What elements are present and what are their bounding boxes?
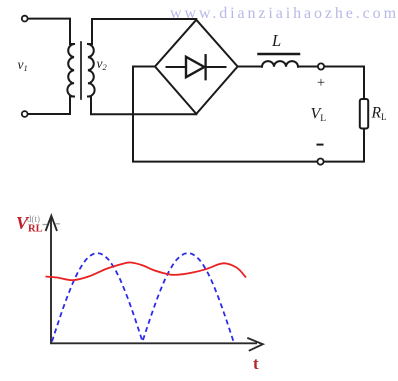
label minus	[317, 144, 324, 146]
wire: + terminal to load top	[324, 67, 364, 100]
red filtered output waveform	[46, 262, 247, 280]
diode triangle	[186, 57, 204, 77]
input terminal top-left	[22, 16, 28, 22]
inductor L winding	[262, 61, 298, 67]
bridge rectifier D	[155, 20, 238, 114]
input terminal bottom-left	[22, 111, 28, 117]
graph x-axis	[50, 342, 257, 344]
blue dashed rectified sine waveform	[52, 253, 234, 342]
svg-text:www.dianziaihaozhe.com: www.dianziaihaozhe.com	[170, 5, 398, 22]
svg-text:v1: v1	[18, 57, 28, 73]
transformer T1 core	[80, 42, 82, 99]
svg-text:L: L	[271, 31, 281, 50]
svg-text:d(t): d(t)	[27, 214, 40, 224]
wire: inductor to + output terminal	[298, 66, 318, 68]
svg-text:v2: v2	[97, 56, 108, 72]
wire: top-left terminal to primary top	[28, 19, 70, 44]
wire: bottom-left terminal to primary bottom	[28, 97, 70, 115]
wire: secondary top to bridge top corner	[92, 19, 196, 44]
transformer T1 secondary winding	[88, 44, 95, 97]
inductor L core bar	[259, 53, 300, 56]
diode cathode lead	[206, 66, 226, 68]
output terminal -	[317, 159, 323, 165]
wire: bottom rail from - terminal to bridge left corner	[133, 67, 318, 162]
svg-text:VL: VL	[311, 106, 327, 125]
svg-text:+: +	[317, 75, 325, 91]
resistor RL body	[360, 99, 368, 129]
diode cathode bar	[204, 55, 206, 79]
wire: bridge right corner to inductor	[238, 66, 262, 68]
svg-text:t: t	[253, 354, 259, 373]
graph y-axis	[50, 217, 52, 344]
transformer T1 primary winding	[67, 44, 74, 97]
svg-text:RL: RL	[371, 105, 387, 123]
diode symbol inside bridge: anode lead	[167, 66, 187, 68]
wire: resistor bottom to bottom rail	[324, 129, 364, 162]
wire: secondary bottom to bridge bottom corner	[91, 97, 196, 115]
output terminal +	[318, 63, 324, 69]
